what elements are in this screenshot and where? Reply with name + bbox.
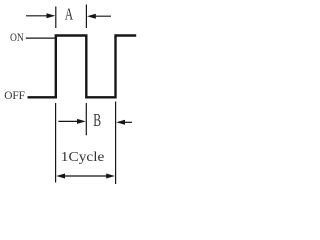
node A dimension left tick <box>55 7 57 29</box>
svg-text:A: A <box>65 4 74 23</box>
node B dimension left extension line <box>85 103 87 135</box>
svg-text:OFF: OFF <box>4 90 25 102</box>
node 1Cycle left arrowhead <box>56 174 65 179</box>
node A dimension right arrowhead <box>87 14 96 19</box>
node B dimension left arrowhead <box>77 119 86 124</box>
wire ON label leader <box>26 37 55 39</box>
node B dimension right arrowhead <box>116 120 125 125</box>
node B dimension left arrow <box>58 120 79 122</box>
node 1Cycle left extension line <box>55 103 57 183</box>
wire square waveform ON/OFF <box>28 36 137 98</box>
wire 1Cycle dimension line <box>62 175 109 177</box>
node B dimension right arrow <box>123 121 132 123</box>
node A dimension right tick <box>85 5 87 29</box>
node A dimension right arrow <box>94 15 111 17</box>
node 1Cycle right arrowhead <box>106 174 115 179</box>
node A dimension left arrow <box>26 15 48 17</box>
node A dimension left arrowhead <box>47 13 56 18</box>
svg-text:1Cycle: 1Cycle <box>61 149 105 164</box>
svg-text:B: B <box>93 110 101 130</box>
node 1Cycle right extension line <box>115 102 117 185</box>
svg-text:ON: ON <box>10 32 24 44</box>
